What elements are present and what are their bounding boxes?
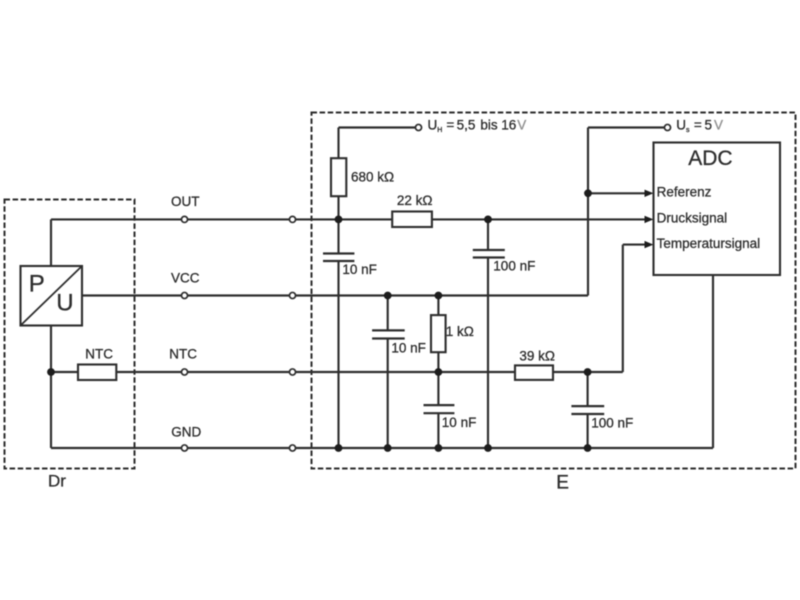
- svg-text:Us=5V: Us=5V: [676, 118, 723, 134]
- svg-text:VCC: VCC: [171, 271, 200, 286]
- svg-text:OUT: OUT: [171, 194, 200, 209]
- svg-text:Referenz: Referenz: [657, 184, 712, 199]
- svg-text:100 nF: 100 nF: [591, 416, 633, 431]
- svg-text:Temperatursignal: Temperatursignal: [657, 236, 761, 251]
- svg-text:E: E: [556, 473, 569, 494]
- svg-text:22 kΩ: 22 kΩ: [397, 193, 433, 208]
- svg-text:NTC: NTC: [85, 347, 113, 362]
- svg-text:P: P: [29, 271, 45, 298]
- svg-text:680 kΩ: 680 kΩ: [351, 170, 394, 185]
- svg-text:10 nF: 10 nF: [442, 415, 477, 430]
- svg-text:100 nF: 100 nF: [493, 259, 535, 274]
- svg-text:ADC: ADC: [688, 147, 732, 170]
- svg-text:1 kΩ: 1 kΩ: [446, 324, 474, 339]
- svg-text:Dr: Dr: [48, 471, 66, 490]
- svg-text:Drucksignal: Drucksignal: [657, 210, 728, 225]
- svg-text:10 nF: 10 nF: [391, 340, 426, 355]
- svg-text:U: U: [56, 290, 73, 317]
- svg-text:39 kΩ: 39 kΩ: [519, 348, 555, 363]
- svg-text:GND: GND: [171, 425, 201, 440]
- svg-text:NTC: NTC: [169, 347, 197, 362]
- svg-text:10 nF: 10 nF: [342, 262, 377, 277]
